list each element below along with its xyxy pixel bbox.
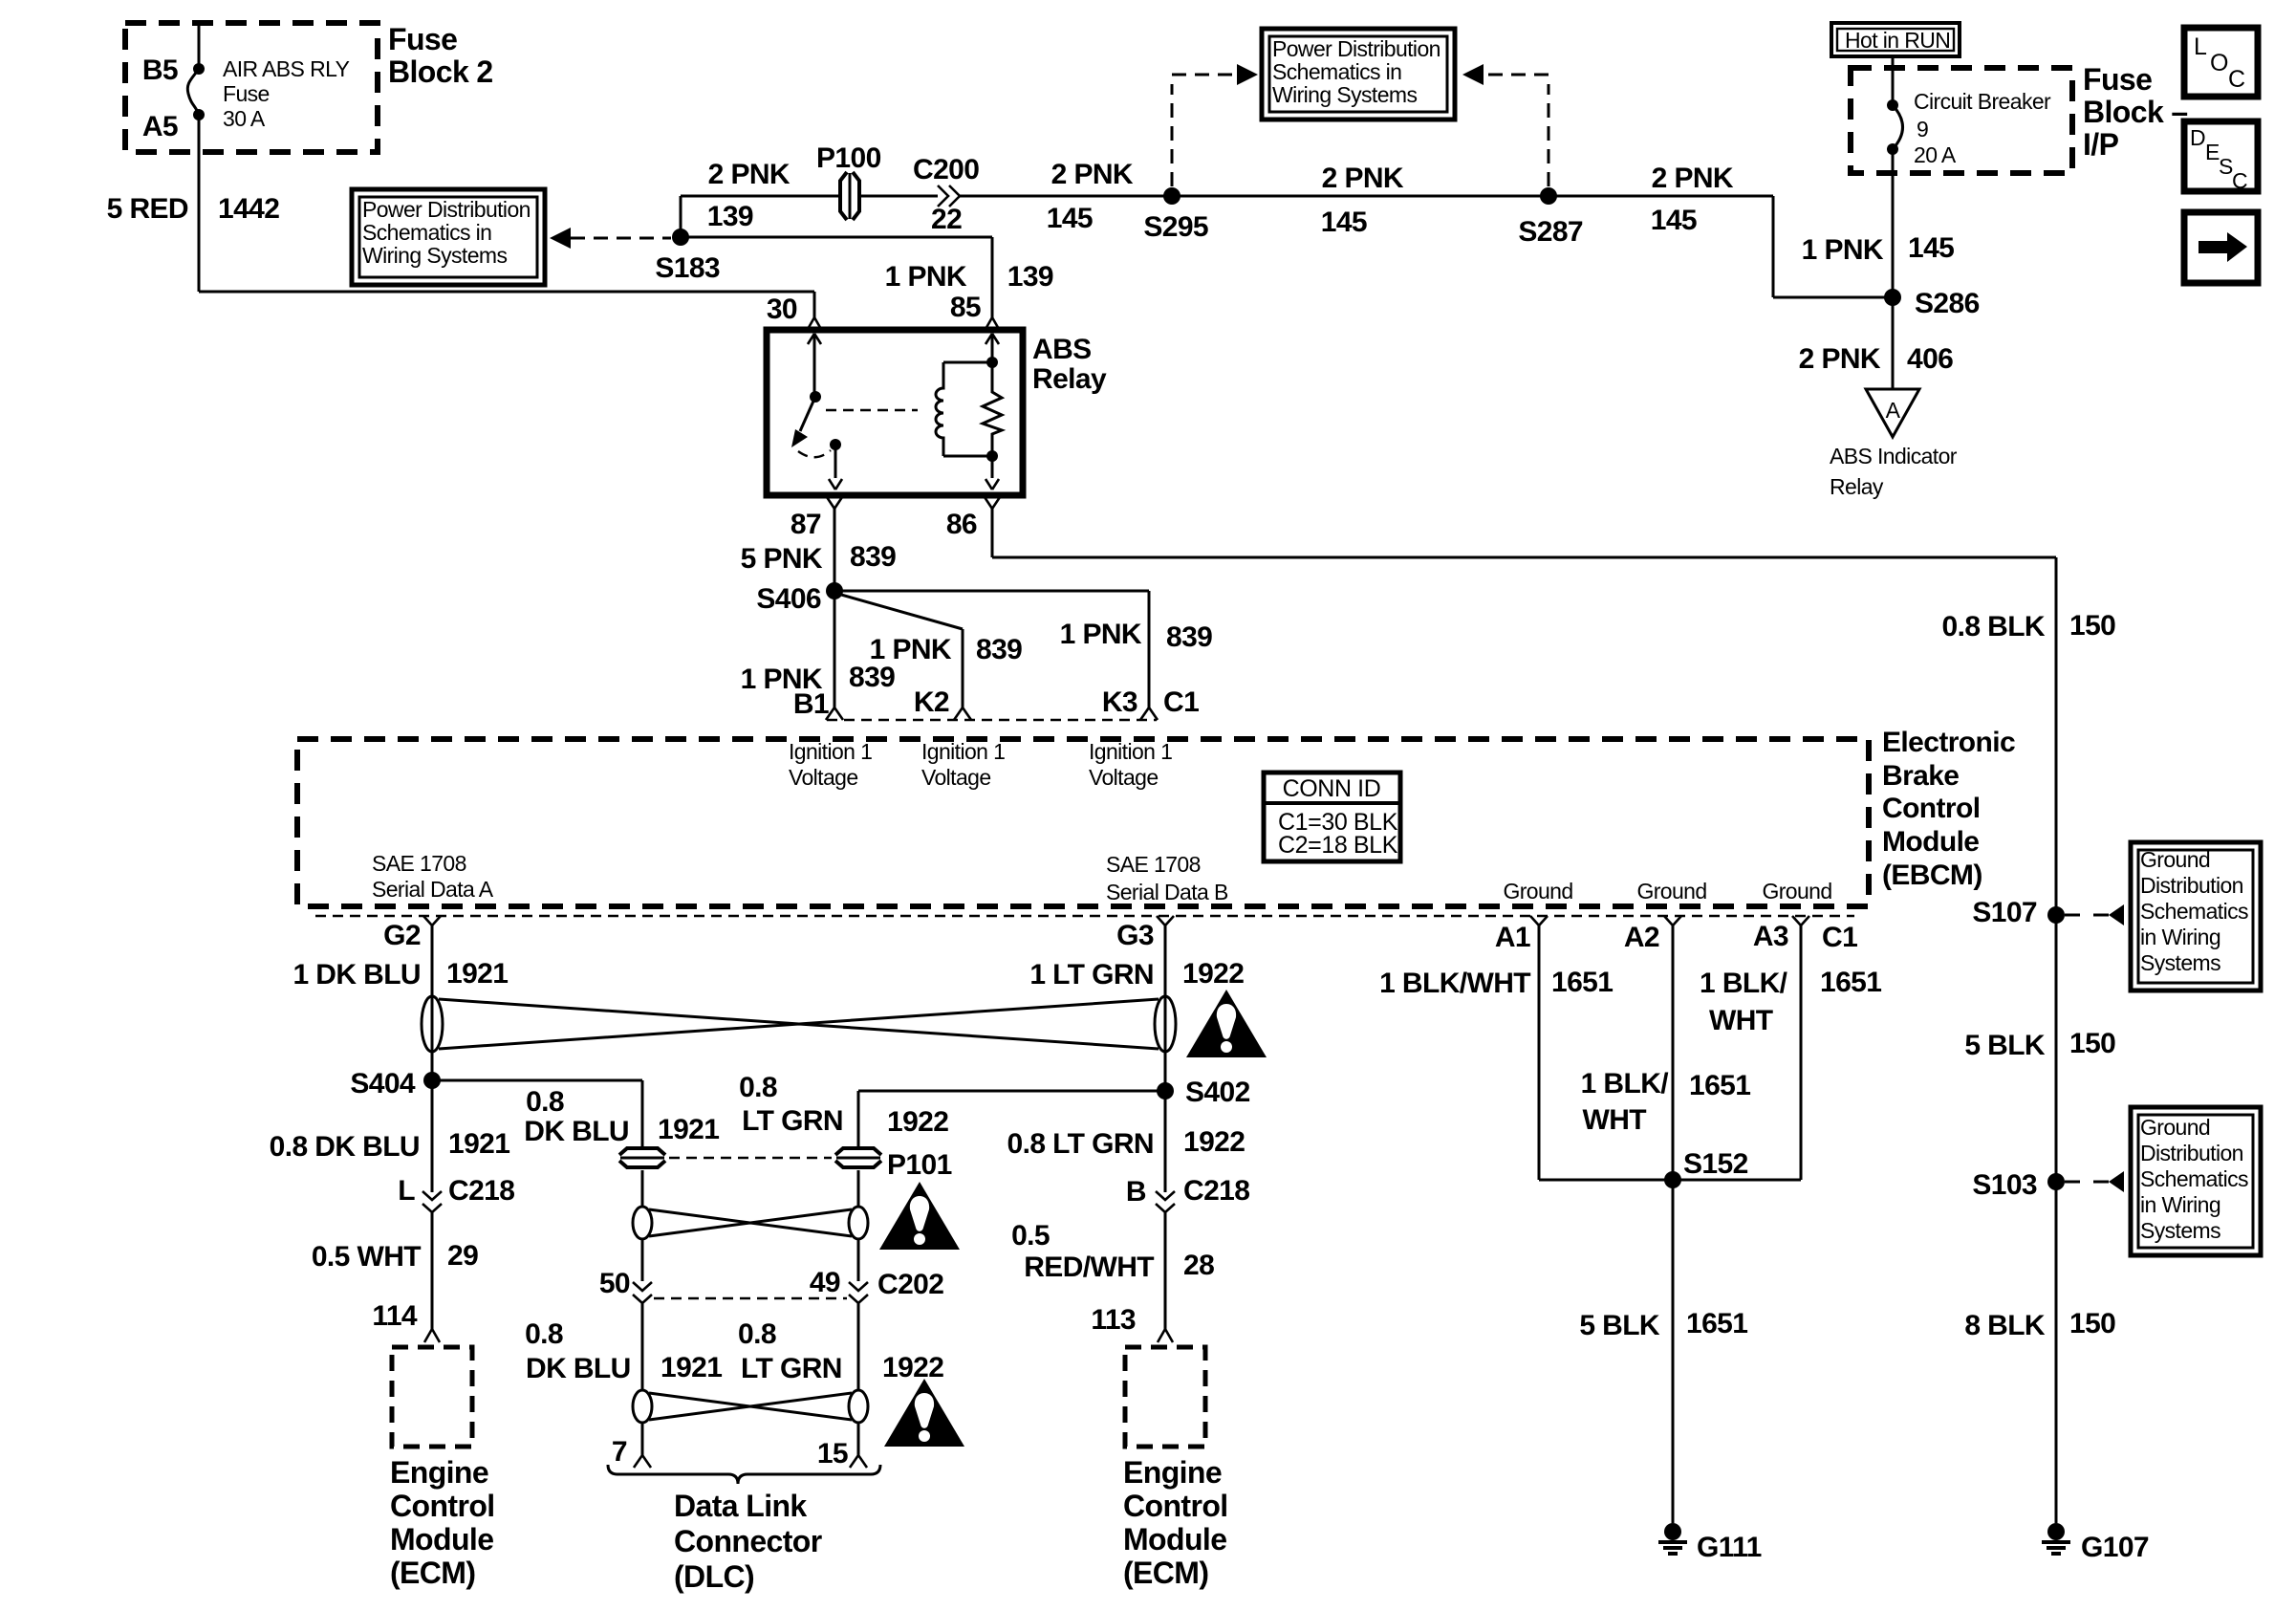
svg-text:A1: A1 (1495, 922, 1530, 953)
svg-text:Control: Control (390, 1489, 495, 1523)
svg-text:406: 406 (1907, 343, 1953, 375)
wire to S286 (1773, 296, 1893, 299)
wire 2 PNK 406 (1892, 297, 1895, 389)
svg-text:839: 839 (1166, 621, 1212, 653)
svg-text:Schematics: Schematics (2140, 899, 2248, 924)
wire 1 LT GRN 1922 from G3 (1164, 924, 1167, 1091)
dashed reference from S295 up (1171, 84, 1174, 186)
EBCM dashed box (297, 739, 1869, 906)
svg-text:0.8: 0.8 (738, 1318, 776, 1350)
svg-text:5 RED: 5 RED (107, 193, 188, 225)
svg-text:Circuit Breaker: Circuit Breaker (1914, 89, 2051, 114)
pin K2 terminal (954, 708, 971, 720)
svg-text:K3: K3 (1102, 686, 1137, 718)
relay switch common (pin 30 internal) (808, 334, 821, 344)
svg-text:O: O (2210, 50, 2228, 76)
relay switch arm (800, 397, 815, 431)
connector C218 female side (1156, 1204, 1175, 1212)
legend right arrow (2199, 232, 2247, 262)
svg-text:Ground: Ground (1503, 879, 1572, 903)
svg-text:S402: S402 (1185, 1077, 1250, 1108)
svg-text:8 BLK: 8 BLK (1964, 1310, 2046, 1341)
svg-text:A2: A2 (1624, 922, 1659, 953)
svg-text:2 PNK: 2 PNK (1652, 163, 1734, 194)
svg-text:D: D (2190, 125, 2205, 150)
svg-text:in Wiring: in Wiring (2140, 925, 2220, 949)
svg-text:Voltage: Voltage (1089, 765, 1159, 790)
pin A2 terminal (1664, 916, 1681, 925)
svg-text:(EBCM): (EBCM) (1882, 860, 1982, 891)
fuse block 2 dashed box (125, 23, 378, 152)
coil bottom junction (986, 450, 998, 462)
wire 0.8 LT GRN 1922 branch (857, 1091, 860, 1146)
reference arrow S103 (2065, 1181, 2109, 1184)
svg-text:1922: 1922 (887, 1106, 948, 1138)
svg-text:0.8: 0.8 (526, 1086, 564, 1118)
ground G111 (1658, 1523, 1687, 1554)
wire 1 BLK/WHT 1651 from A3 (1800, 924, 1803, 1180)
svg-text:1 PNK: 1 PNK (1802, 234, 1884, 266)
arrowhead into PD box right (1462, 64, 1484, 85)
legend box LOC (2184, 28, 2258, 97)
wire to twisted pair 2 (857, 1170, 860, 1207)
svg-text:Wiring Systems: Wiring Systems (362, 243, 507, 268)
reference box Power Distribution Schematics in Wiring Systems (top) (1262, 29, 1455, 120)
svg-text:(ECM): (ECM) (1123, 1556, 1208, 1590)
grommet P101 left (619, 1148, 665, 1167)
svg-text:Control: Control (1123, 1489, 1228, 1523)
pin 30 terminal (807, 317, 822, 331)
svg-text:1 PNK: 1 PNK (870, 634, 952, 665)
warning triangle (C202) (879, 1182, 960, 1250)
node S103 (2047, 1173, 2065, 1190)
svg-text:87: 87 (791, 509, 821, 540)
wire to coil (943, 361, 992, 364)
svg-text:Ignition 1: Ignition 1 (921, 739, 1005, 764)
svg-text:1921: 1921 (448, 1128, 509, 1160)
wire to DLC pin 15 (857, 1422, 860, 1455)
svg-text:WHT: WHT (1709, 1005, 1773, 1036)
svg-text:1 PNK: 1 PNK (1060, 619, 1142, 650)
svg-text:Power Distribution: Power Distribution (362, 197, 531, 222)
svg-text:1651: 1651 (1689, 1070, 1750, 1101)
pin 113 terminal (1158, 1329, 1173, 1342)
svg-text:Control: Control (1882, 793, 1980, 824)
svg-text:839: 839 (849, 662, 895, 693)
svg-text:RED/WHT: RED/WHT (1024, 1252, 1154, 1283)
svg-text:1 BLK/WHT: 1 BLK/WHT (1379, 968, 1530, 999)
pin 87 terminal (827, 497, 842, 509)
connector C202 pin 49 female (849, 1295, 868, 1303)
svg-text:A: A (1886, 398, 1901, 423)
svg-text:S107: S107 (1972, 897, 2037, 928)
svg-text:1442: 1442 (218, 193, 279, 225)
svg-text:C: C (2232, 168, 2247, 193)
svg-text:0.8: 0.8 (739, 1072, 777, 1103)
svg-text:Electronic: Electronic (1882, 727, 2015, 758)
svg-text:B5: B5 (142, 54, 178, 86)
P101 dashed link (669, 1157, 832, 1159)
svg-text:SAE 1708: SAE 1708 (1106, 852, 1201, 877)
svg-text:145: 145 (1651, 205, 1697, 236)
svg-text:C: C (2228, 66, 2245, 93)
svg-text:S286: S286 (1915, 288, 1980, 319)
coil top junction (986, 357, 998, 368)
svg-text:1922: 1922 (882, 1352, 943, 1383)
wire 1 BLK/WHT 1651 from A2 to G111 (1672, 924, 1675, 1523)
svg-text:Ground: Ground (2140, 847, 2210, 872)
switch contact (pin 87) (830, 439, 841, 450)
svg-text:Fuse: Fuse (2083, 62, 2152, 97)
wire 1 PNK 139 (681, 236, 992, 239)
pin G3 terminal (1157, 916, 1174, 925)
connector C202 pin 50 female (633, 1295, 652, 1303)
wire B5 stub (198, 26, 201, 69)
svg-text:30: 30 (767, 294, 797, 325)
reference box Power Distribution Schematics in Wiring Systems (left) (352, 189, 545, 285)
dashed reference to PD box right (1485, 74, 1549, 76)
pin K3 terminal (1140, 708, 1158, 720)
node S183 (672, 229, 689, 246)
svg-text:150: 150 (2069, 610, 2115, 642)
svg-text:85: 85 (950, 292, 981, 323)
svg-text:S103: S103 (1972, 1169, 2037, 1201)
svg-text:1651: 1651 (1820, 967, 1881, 998)
svg-text:Voltage: Voltage (921, 765, 991, 790)
svg-text:1 BLK/: 1 BLK/ (1700, 968, 1788, 999)
svg-text:LT GRN: LT GRN (741, 1353, 842, 1384)
svg-text:SAE 1708: SAE 1708 (372, 851, 466, 876)
wire S404 branch (432, 1079, 642, 1082)
ECM dashed box (right) (1125, 1347, 1205, 1447)
pin B1 terminal (826, 708, 843, 720)
svg-text:Systems: Systems (2140, 950, 2220, 975)
svg-text:S287: S287 (1518, 216, 1583, 248)
svg-text:L: L (2194, 33, 2207, 60)
svg-text:113: 113 (1091, 1304, 1136, 1336)
svg-text:Module: Module (1123, 1522, 1226, 1557)
svg-text:L: L (398, 1175, 415, 1207)
svg-text:Relay: Relay (1032, 363, 1107, 395)
switch arm arrowhead (791, 429, 808, 447)
svg-text:Power Distribution: Power Distribution (1272, 36, 1440, 61)
svg-text:2 PNK: 2 PNK (1051, 159, 1134, 190)
wire 1 DK BLU 1921 from G2 (431, 924, 434, 1080)
legend box DESC (2184, 121, 2258, 191)
svg-text:114: 114 (372, 1300, 418, 1332)
svg-text:1651: 1651 (1551, 967, 1613, 998)
svg-text:29: 29 (447, 1240, 478, 1272)
svg-text:145: 145 (1047, 203, 1093, 234)
node S286 (1884, 289, 1901, 306)
triangle reference A ABS Indicator Relay (1866, 389, 1919, 437)
node A5 terminal (193, 109, 205, 120)
connector face dashed line top (827, 719, 1157, 721)
svg-text:Data Link: Data Link (674, 1489, 807, 1523)
svg-text:P100: P100 (816, 142, 881, 174)
svg-text:C2=18 BLK: C2=18 BLK (1278, 832, 1398, 859)
svg-text:DK BLU: DK BLU (526, 1353, 631, 1384)
svg-text:B1: B1 (793, 688, 829, 720)
wire 0.8 DK BLU 1921 to DLC (641, 1303, 644, 1391)
reference box Hot in RUN (1831, 23, 1960, 56)
node S152 (1664, 1171, 1681, 1188)
connector face dashed line bottom (315, 915, 1854, 917)
svg-text:P101: P101 (887, 1149, 952, 1181)
circuit breaker 9 element (1893, 105, 1903, 149)
wire to DLC pin 7 (641, 1422, 644, 1455)
svg-text:(DLC): (DLC) (674, 1559, 754, 1594)
svg-text:839: 839 (976, 634, 1022, 665)
svg-text:Relay: Relay (1830, 474, 1884, 499)
svg-text:145: 145 (1908, 232, 1954, 264)
twisted pair 3 (633, 1390, 868, 1423)
twisted pair serial data (422, 996, 1176, 1052)
ECM dashed box (left) (392, 1347, 472, 1447)
warning triangle (DLC) (884, 1379, 964, 1447)
wire 2 PNK down segment (1772, 196, 1775, 297)
svg-text:0.8 BLK: 0.8 BLK (1942, 611, 2046, 642)
svg-text:Wiring Systems: Wiring Systems (1272, 82, 1417, 107)
svg-text:0.5 WHT: 0.5 WHT (312, 1241, 421, 1273)
svg-text:S183: S183 (655, 252, 720, 284)
svg-text:139: 139 (707, 201, 753, 232)
svg-text:50: 50 (599, 1268, 630, 1299)
svg-text:S295: S295 (1143, 211, 1208, 243)
svg-text:Fuse: Fuse (223, 81, 270, 106)
wire 1 BLK/WHT 1651 from A1 (1538, 924, 1541, 1180)
pin 114 terminal (424, 1329, 440, 1342)
connector C218 male chevron (1156, 1191, 1175, 1200)
svg-text:Voltage: Voltage (789, 765, 858, 790)
svg-text:G2: G2 (383, 920, 421, 951)
connector ID table CONN ID (1264, 773, 1400, 861)
wire 0.8 BLK 150 horizontal (992, 556, 2056, 559)
breaker terminal bottom (1887, 143, 1898, 155)
svg-text:ABS Indicator: ABS Indicator (1830, 444, 1958, 468)
svg-text:A5: A5 (142, 111, 178, 142)
svg-text:30 A: 30 A (223, 106, 266, 131)
svg-text:E: E (2205, 140, 2220, 164)
relay contact to pin 87 (834, 445, 837, 478)
wire 2 PNK 145 main top (960, 195, 1773, 198)
svg-text:1 DK BLU: 1 DK BLU (292, 959, 421, 991)
node B5 terminal (193, 63, 205, 75)
relay coil branch (pin 85/86) (986, 334, 999, 344)
wire to C202 pin 50 (641, 1239, 644, 1281)
svg-text:Ground: Ground (1762, 879, 1831, 903)
svg-text:S: S (2219, 154, 2233, 179)
svg-text:1 PNK: 1 PNK (885, 261, 967, 293)
pin 86 terminal (985, 497, 1000, 509)
wire 5 PNK 839 (834, 509, 836, 591)
svg-text:Engine: Engine (1123, 1455, 1222, 1490)
wire 1 PNK 145 down (1892, 149, 1895, 297)
svg-text:Systems: Systems (2140, 1218, 2220, 1243)
svg-text:1651: 1651 (1686, 1308, 1747, 1339)
wire S402 branch (858, 1090, 1165, 1093)
connector C218 male chevron (422, 1191, 442, 1200)
pin G2 terminal (423, 916, 441, 925)
C202 connector face dashed (654, 1297, 847, 1299)
svg-text:Schematics: Schematics (2140, 1166, 2248, 1191)
svg-text:C218: C218 (448, 1175, 514, 1207)
wire S406 to K3 branch (834, 590, 1149, 593)
svg-text:Serial Data A: Serial Data A (372, 877, 494, 902)
fuse AIR ABS RLY 30A element (187, 69, 199, 115)
relay resistor (983, 362, 1002, 478)
wire down to pin 85 (991, 237, 994, 317)
connector C202 pin 49 chevron (849, 1282, 868, 1291)
node S107 (2047, 906, 2065, 924)
dashed reference to PD box (1172, 74, 1235, 76)
svg-text:7: 7 (612, 1436, 627, 1468)
twisted pair 2 (633, 1207, 868, 1239)
svg-text:Ignition 1: Ignition 1 (1089, 739, 1172, 764)
node S404 (423, 1072, 441, 1089)
svg-text:1 BLK/: 1 BLK/ (1581, 1068, 1670, 1099)
svg-text:2 PNK: 2 PNK (1322, 163, 1404, 194)
svg-text:(ECM): (ECM) (390, 1556, 475, 1590)
svg-text:20 A: 20 A (1914, 142, 1957, 167)
switch pivot (810, 391, 821, 403)
arrowhead into PD box left (1237, 64, 1258, 85)
wire to twisted pair 2 (641, 1170, 644, 1207)
svg-text:G111: G111 (1697, 1532, 1762, 1563)
svg-text:1921: 1921 (446, 958, 508, 990)
svg-text:150: 150 (2069, 1028, 2115, 1059)
svg-text:0.8: 0.8 (525, 1318, 563, 1350)
relay actuation dashed link (826, 409, 918, 411)
wire S406 diagonal to K2 (834, 593, 963, 629)
svg-text:I/P: I/P (2083, 127, 2119, 162)
connector C218 female side (422, 1204, 442, 1212)
wire BLK 150 right vertical (2055, 557, 2058, 1523)
svg-text:Fuse: Fuse (388, 22, 457, 56)
pin 85 terminal (985, 317, 1000, 331)
pin 7 terminal (634, 1455, 651, 1468)
dashed reference from S287 up (1548, 84, 1550, 186)
svg-text:C1: C1 (1163, 686, 1199, 718)
svg-text:LT GRN: LT GRN (742, 1105, 843, 1137)
svg-text:B: B (1126, 1176, 1146, 1208)
svg-text:9: 9 (1917, 117, 1928, 142)
svg-text:CONN ID: CONN ID (1283, 775, 1381, 802)
svg-text:Engine: Engine (390, 1455, 488, 1490)
connector C202 pin 50 chevron (633, 1282, 652, 1291)
svg-text:839: 839 (850, 541, 896, 573)
wire from coil bottom (943, 455, 992, 458)
wire 0.8 LT GRN 1922 to DLC (857, 1303, 860, 1391)
svg-text:DK BLU: DK BLU (524, 1116, 629, 1147)
wire 5 RED horizontal to relay (199, 291, 814, 294)
svg-text:Distribution: Distribution (2140, 1141, 2243, 1165)
svg-text:Ignition 1: Ignition 1 (789, 739, 872, 764)
node S402 (1157, 1082, 1174, 1099)
svg-text:C218: C218 (1183, 1175, 1249, 1207)
wire up to relay pin 30 (813, 292, 816, 317)
legend box arrow (2184, 212, 2258, 283)
node S287 (1540, 187, 1557, 205)
wire 0.5 RED/WHT 28 (1164, 1212, 1167, 1329)
wire 1 PNK 839 to K3 (1148, 591, 1151, 708)
grommet P100 (840, 172, 859, 220)
wire to C218 pin L (431, 1080, 434, 1192)
svg-text:ABS: ABS (1032, 334, 1092, 365)
svg-text:S406: S406 (756, 583, 821, 615)
svg-text:49: 49 (810, 1267, 840, 1298)
wire from Hot in RUN (1892, 56, 1895, 105)
wire 86 down (991, 509, 994, 557)
svg-text:2 PNK: 2 PNK (1799, 343, 1881, 375)
node S406 (826, 582, 843, 599)
pin 15 terminal (850, 1455, 867, 1468)
wire to C202 pin 49 (857, 1239, 860, 1281)
wire 0.5 WHT 29 (431, 1212, 434, 1329)
svg-text:G107: G107 (2081, 1532, 2149, 1563)
pin A1 terminal (1530, 916, 1548, 925)
grommet P101 right (835, 1148, 881, 1167)
svg-text:WHT: WHT (1582, 1104, 1646, 1136)
svg-text:Ground: Ground (1636, 879, 1706, 903)
dashed reference wire from S183 (571, 237, 671, 240)
svg-text:86: 86 (946, 509, 977, 540)
svg-text:Hot in RUN: Hot in RUN (1845, 28, 1950, 53)
svg-text:5 BLK: 5 BLK (1964, 1030, 2046, 1061)
svg-text:AIR ABS RLY: AIR ABS RLY (223, 56, 350, 81)
svg-text:Brake: Brake (1882, 760, 1959, 792)
svg-text:K2: K2 (914, 686, 949, 718)
switch throw arc (798, 450, 831, 457)
svg-text:145: 145 (1321, 207, 1367, 238)
svg-text:Distribution: Distribution (2140, 873, 2243, 898)
svg-text:0.8 LT GRN: 0.8 LT GRN (1007, 1128, 1154, 1160)
node S295 (1163, 187, 1180, 205)
svg-text:150: 150 (2069, 1308, 2115, 1339)
svg-text:G3: G3 (1116, 920, 1154, 951)
svg-text:S152: S152 (1683, 1148, 1748, 1180)
svg-text:Block 2: Block 2 (388, 54, 493, 89)
svg-text:139: 139 (1007, 261, 1053, 293)
svg-text:28: 28 (1183, 1250, 1214, 1281)
svg-text:0.8 DK BLU: 0.8 DK BLU (270, 1131, 420, 1163)
warning triangle (1922) (1186, 990, 1267, 1057)
fuse block I/P dashed box (1851, 68, 2072, 173)
svg-text:C200: C200 (913, 154, 979, 185)
svg-text:1 LT GRN: 1 LT GRN (1029, 959, 1154, 991)
svg-text:15: 15 (817, 1438, 848, 1469)
svg-text:in Wiring: in Wiring (2140, 1192, 2220, 1217)
svg-text:0.5: 0.5 (1011, 1220, 1050, 1252)
ABS relay box (767, 330, 1023, 495)
svg-text:A3: A3 (1753, 921, 1788, 952)
svg-text:S404: S404 (350, 1068, 416, 1099)
svg-text:Module: Module (390, 1522, 493, 1557)
svg-text:22: 22 (931, 204, 962, 235)
svg-text:2 PNK: 2 PNK (708, 159, 791, 190)
svg-text:1921: 1921 (658, 1114, 719, 1145)
wire to C200 (860, 195, 938, 198)
svg-text:1921: 1921 (661, 1352, 722, 1383)
wire 0.8 DK BLU 1921 branch (641, 1080, 644, 1146)
svg-text:Module: Module (1882, 826, 1979, 858)
wire 1 PNK 839 to K2 (962, 629, 964, 708)
pin A3 terminal (1792, 916, 1809, 925)
svg-text:C202: C202 (877, 1269, 943, 1300)
svg-text:Connector: Connector (674, 1524, 822, 1558)
DLC brace (608, 1465, 880, 1484)
svg-text:Block –: Block – (2083, 95, 2188, 129)
